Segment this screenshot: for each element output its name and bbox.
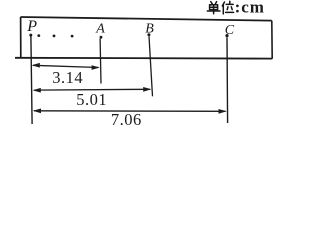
extension line from C (226, 37, 229, 123)
extension line from A (99, 39, 102, 84)
dimension arrow 3.14 (P to A) (32, 63, 100, 70)
ellipsis dot 3 (71, 35, 74, 38)
unit label 单 (hand-drawn glyph) (207, 2, 220, 14)
svg-text:P: P (26, 18, 37, 35)
rectangle box right edge (271, 21, 273, 59)
svg-text:3.14: 3.14 (52, 68, 83, 87)
svg-text::cm: :cm (235, 0, 265, 16)
dimension arrow 5.01 (P to B) (33, 87, 152, 93)
point dot A (100, 36, 103, 39)
rectangle box bottom edge (15, 57, 272, 60)
unit label 位 (hand-drawn glyph) (222, 1, 233, 14)
extension line from B (149, 36, 153, 96)
svg-text:A: A (95, 21, 105, 36)
point dot P (29, 34, 32, 37)
dimension arrow 7.06 (P to C) (33, 109, 227, 114)
extension line from P (31, 37, 32, 125)
point dot C (225, 34, 228, 37)
rectangle box left edge (20, 17, 22, 58)
svg-text:5.01: 5.01 (76, 90, 107, 109)
rectangle box (ruler outline) top edge (21, 17, 272, 21)
svg-text:7.06: 7.06 (111, 110, 142, 129)
ellipsis dot 1 (37, 34, 40, 37)
ellipsis dot 2 (53, 35, 56, 38)
point dot B (147, 33, 150, 36)
